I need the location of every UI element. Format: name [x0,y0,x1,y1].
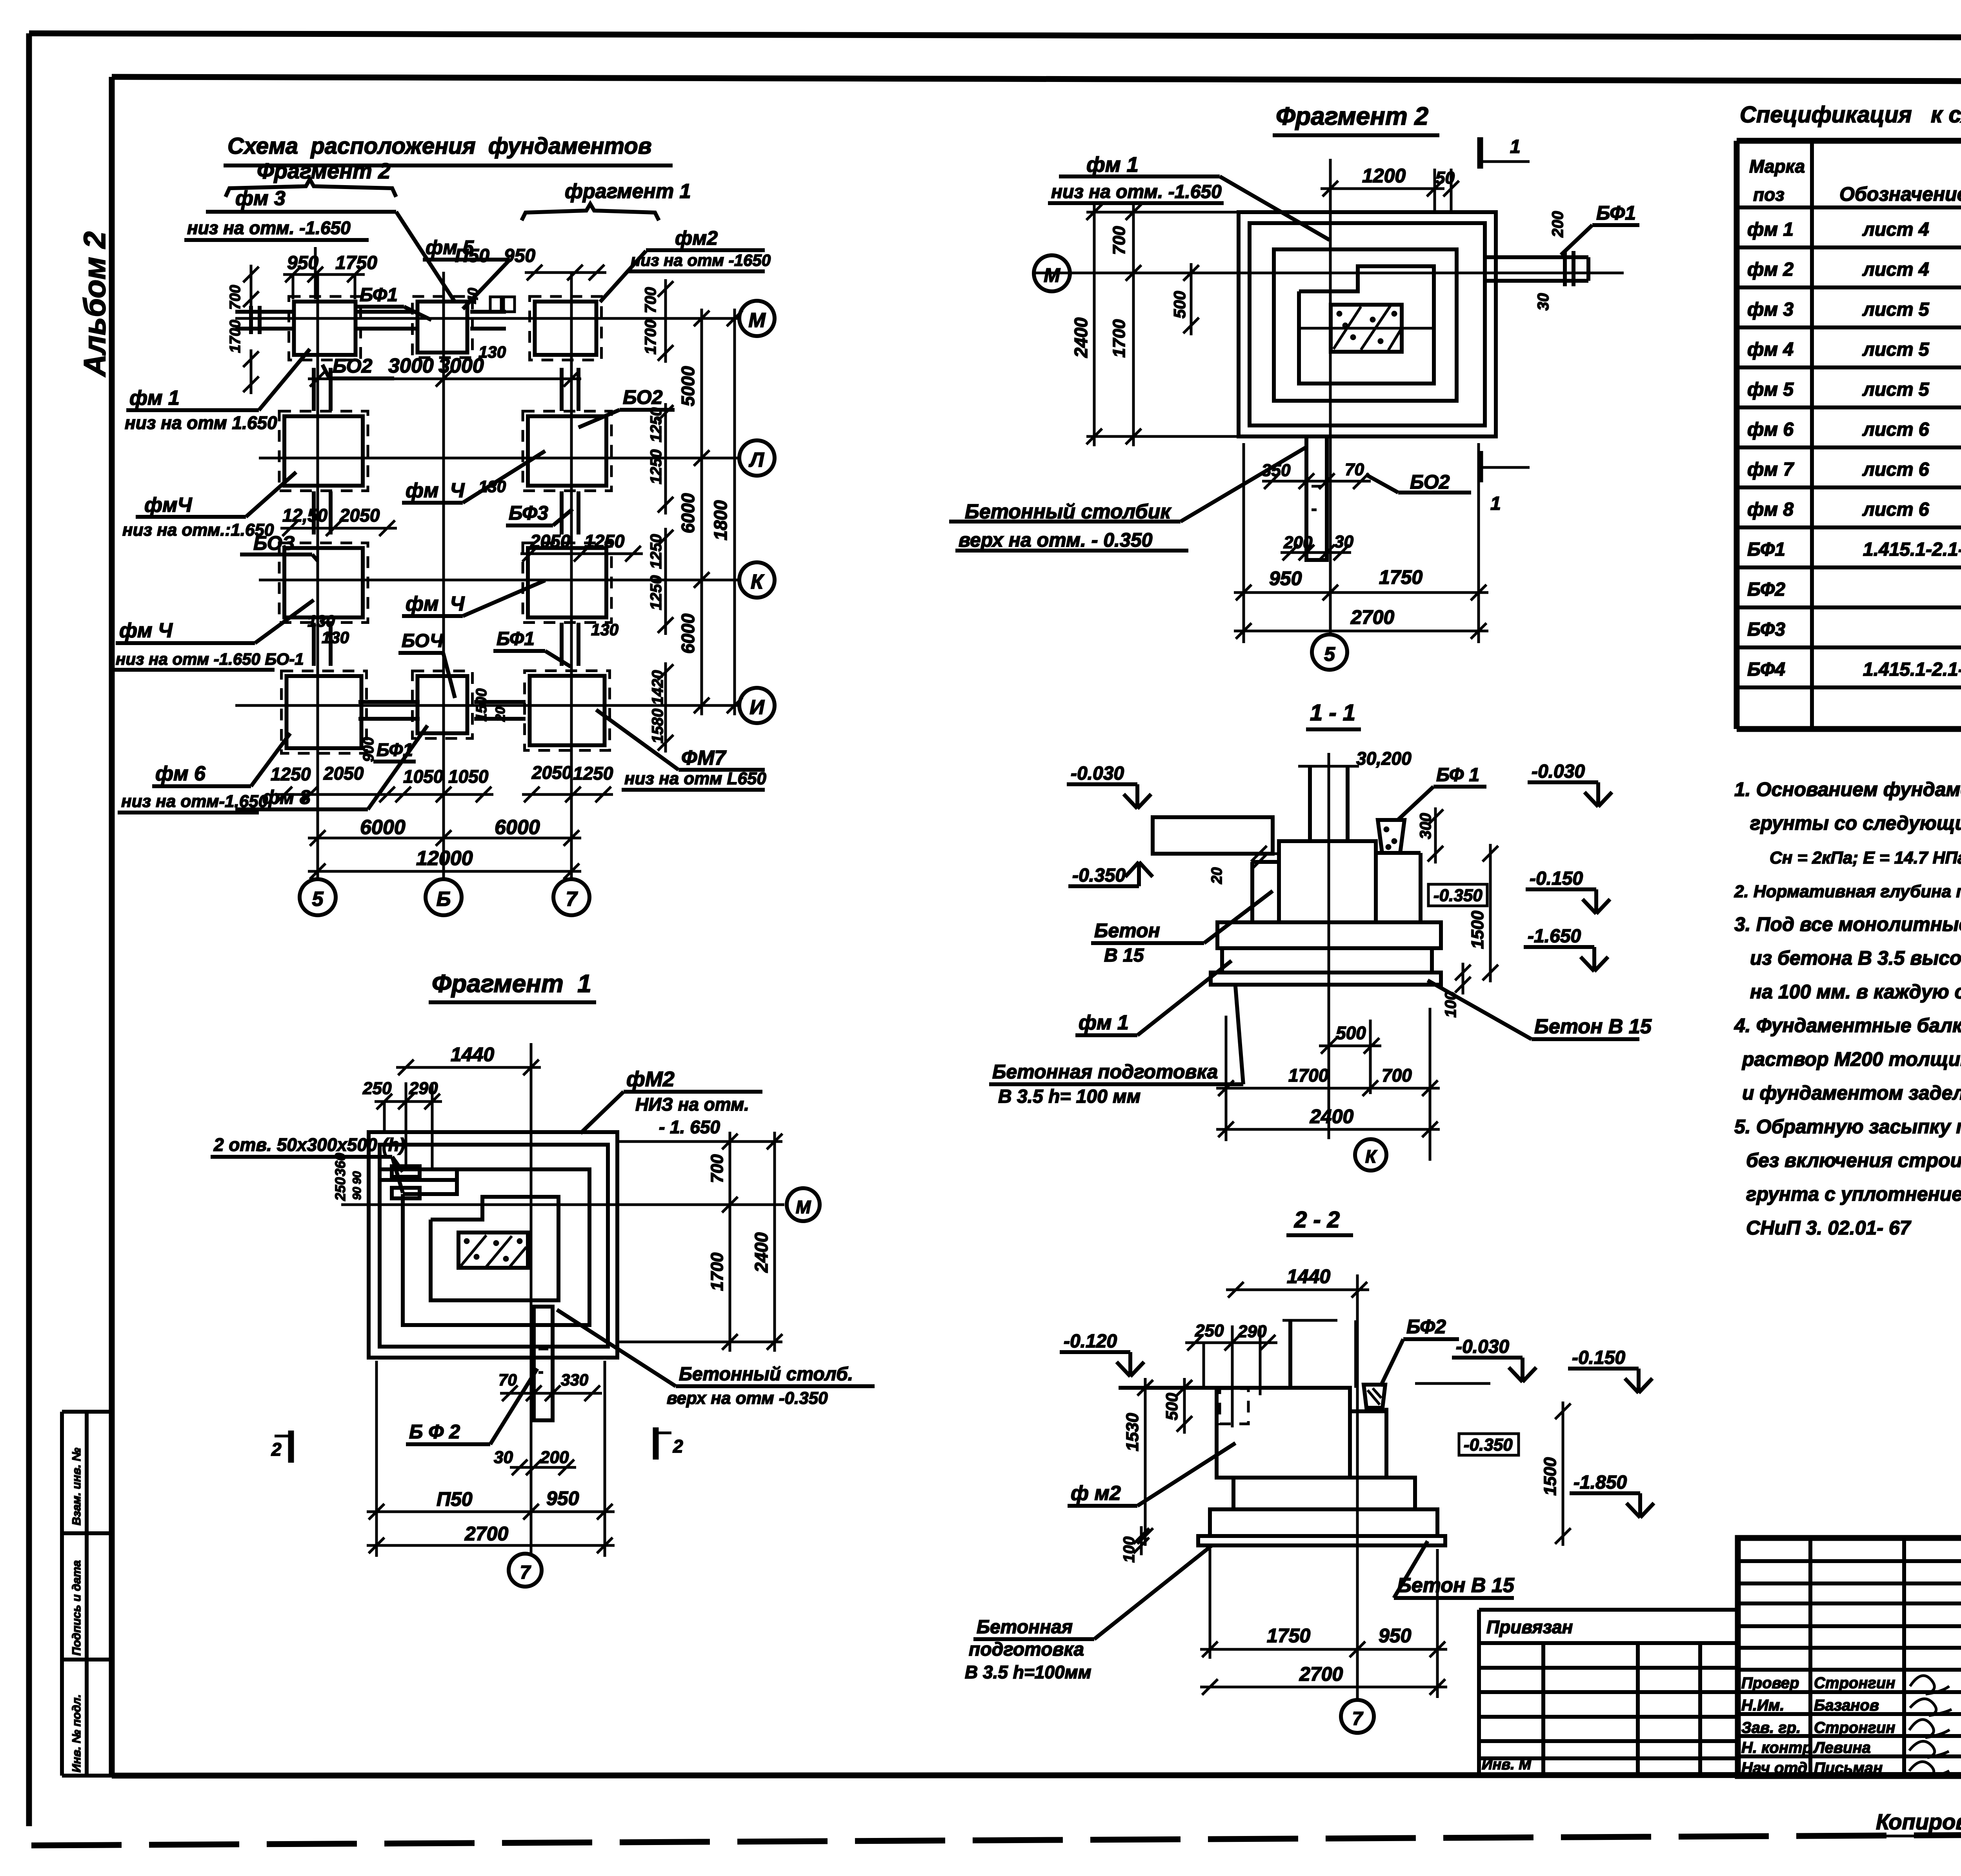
svg-text:БФ 1: БФ 1 [1436,765,1479,785]
svg-text:фм 5: фм 5 [426,236,474,258]
foundation фм4 (axis 5/Л) [279,411,368,491]
svg-text:360: 360 [332,1153,348,1176]
svg-text:290: 290 [1237,1322,1267,1341]
svg-text:верх на отм -0.350: верх на отм -0.350 [667,1389,828,1408]
svg-text:К: К [1365,1146,1377,1167]
outer border top line [29,33,1961,38]
axis circle 5 [300,879,336,915]
svg-text:грунты со следующими нормативн: грунты со следующими нормативными характ… [1750,812,1961,834]
svg-text:2400: 2400 [1310,1105,1353,1127]
svg-text:Спецификация к схеме распол: Спецификация к схеме расположения фундам… [1740,102,1961,127]
sec2 axis vertical [1356,1274,1359,1700]
inner frame left line [109,77,115,1776]
frag2 axis М horizontal [1035,272,1624,274]
svg-text:1700: 1700 [708,1252,727,1291]
svg-text:фм 7: фм 7 [1747,459,1794,480]
grid axis horizontal И [235,704,740,707]
sec1 axis vertical [1328,753,1330,1139]
svg-text:БФ4: БФ4 [1747,659,1785,680]
svg-text:90: 90 [351,1187,364,1200]
svg-text:Фрагмент 2: Фрагмент 2 [257,158,390,183]
frag2 foundation square 2 [1250,223,1485,425]
svg-text:1500: 1500 [473,688,490,722]
svg-text:БОЧ: БОЧ [402,631,444,651]
frag1 axis 7 vertical [530,1043,533,1554]
dim 12000 line [308,870,581,873]
svg-text:2700: 2700 [1350,606,1394,628]
frag2 dim 200 30 [1281,551,1351,554]
svg-text:950: 950 [546,1487,579,1509]
svg-text:СНиП 3. 02.01- 67: СНиП 3. 02.01- 67 [1746,1217,1912,1239]
svg-text:1. Основанием фундаментов прин: 1. Основанием фундаментов приняты сухие … [1734,778,1961,800]
beam БФ2 along axis 7 [560,368,564,411]
svg-text:Н.Им.: Н.Им. [1741,1697,1784,1714]
svg-text:раствор М200 толщиной 20мм. З: раствор М200 толщиной 20мм. Зазоры между… [1741,1048,1961,1070]
sec1 rotated dim 1500 [1489,844,1492,982]
svg-text:Фрагмент 1: Фрагмент 1 [432,969,591,998]
svg-text:2: 2 [673,1436,683,1456]
svg-text:И: И [749,696,765,719]
dim 1050 1050 row И Б [393,793,493,796]
dim 2050 1250 row И col7 [522,793,613,796]
sec1 base slab [1222,948,1432,973]
frag1 square 3 stepped [403,1169,589,1325]
svg-text:250: 250 [1195,1321,1224,1340]
svg-text:2 отв. 50х300х500 (h): 2 отв. 50х300х500 (h) [213,1134,405,1155]
svg-text:70: 70 [1345,460,1364,479]
svg-text:6000: 6000 [678,493,698,533]
grid axis horizontal Л [259,457,740,460]
svg-text:2700: 2700 [1299,1663,1343,1685]
svg-text:250: 250 [362,1079,392,1098]
svg-text:В 15: В 15 [1104,945,1144,966]
frag2 axis circle М [1034,255,1070,291]
frag1 dim 70 330 [500,1392,602,1395]
frag2 column hatched [1331,305,1402,352]
svg-text:Бетонный столб.: Бетонный столб. [679,1364,853,1385]
svg-text:Зав. гр.: Зав. гр. [1741,1719,1801,1736]
svg-text:4. Фундаментные балки уклад: 4. Фундаментные балки укладывать на цеме… [1734,1014,1961,1036]
svg-text:фм 3: фм 3 [235,187,286,210]
frag1 section mark 2 right [653,1427,659,1460]
svg-text:1700: 1700 [1110,319,1129,358]
beam БФ2 along axis 5 [312,368,316,411]
svg-text:лист 4: лист 4 [1862,259,1929,280]
svg-text:-0.120: -0.120 [1064,1331,1117,1352]
svg-text:грунта с уплотнением в соо: грунта с уплотнением в соответствии с тр… [1746,1183,1961,1205]
svg-text:фм 1: фм 1 [1747,219,1794,240]
frag2 dim 2700 [1234,630,1488,633]
sec1 axis circle К [1355,1139,1386,1171]
frag1 dim 2700 [367,1544,615,1547]
beam БФ1 row М [355,310,417,314]
axis circle Б [426,879,462,915]
svg-text:1500: 1500 [1468,911,1487,949]
frag2 top dim 1200 50 [1321,187,1444,190]
svg-text:2: 2 [271,1439,282,1460]
svg-text:1700: 1700 [227,320,244,353]
svg-text:ф м2: ф м2 [1071,1482,1121,1505]
inner frame bottom line [112,1775,1961,1776]
svg-text:поз: поз [1753,184,1785,205]
svg-text:500: 500 [1162,1393,1181,1420]
svg-text:М: М [1044,264,1061,286]
svg-text:2050: 2050 [339,505,380,525]
svg-text:5000: 5000 [678,366,698,406]
sec1 right shoulder [1419,853,1423,922]
svg-text:Левина: Левина [1813,1739,1871,1756]
svg-text:БО2: БО2 [623,386,663,408]
sec2 base [1210,1509,1437,1536]
frag1 dim 1750 950 [367,1511,615,1513]
connector symbol row М near Б [490,297,501,312]
frag2 dim 500 [1190,263,1193,335]
svg-text:-0.150: -0.150 [1530,868,1583,889]
svg-text:12000: 12000 [416,847,473,870]
svg-text:лист 6: лист 6 [1862,459,1929,480]
svg-text:7: 7 [566,888,578,911]
svg-text:20: 20 [1209,867,1225,884]
svg-text:6000: 6000 [360,816,406,839]
svg-text:30: 30 [1535,293,1552,311]
svg-text:3000: 3000 [438,354,484,377]
svg-text:Инв. № подл.: Инв. № подл. [70,1694,83,1772]
svg-text:Сн = 2кПа; Е = 14.7 НПа;: Сн = 2кПа; Е = 14.7 НПа; Yн = 0.49 раз; … [1770,848,1961,867]
svg-text:1440: 1440 [1287,1265,1330,1287]
svg-text:200: 200 [540,1448,569,1467]
sec2 ground line [1119,1386,1217,1390]
sec2 dim 2700 [1200,1686,1447,1689]
sec1 prep layer [1211,973,1441,985]
sec2 rotated dim 500 [1183,1378,1186,1434]
sec1 boxed -0.350 [1428,884,1487,906]
svg-text:БФ1: БФ1 [497,629,535,649]
sec2 right shoulder [1350,1409,1386,1413]
svg-text:1250: 1250 [573,763,613,783]
frag1 dim 1440 [396,1066,541,1069]
svg-text:-0.150: -0.150 [1572,1347,1625,1368]
svg-text:низ на отм.:1.650: низ на отм.:1.650 [122,520,274,540]
frag2 section mark 1 top [1477,137,1483,169]
frag2 axis circle 5 [1312,634,1347,670]
svg-text:фм Ч: фм Ч [119,619,173,642]
svg-text:1420: 1420 [649,670,666,705]
svg-text:К: К [751,571,764,593]
svg-text:низ на отм 1.650: низ на отм 1.650 [125,413,277,433]
svg-text:-0.030: -0.030 [1071,763,1124,784]
svg-text:на 100 мм. в каждую сторону,: на 100 мм. в каждую сторону, кроме огово… [1750,981,1961,1003]
svg-text:1250: 1250 [648,575,665,610]
frag2 concrete post столбик [1306,436,1327,560]
svg-text:БФ1: БФ1 [360,285,398,305]
svg-text:1250: 1250 [271,764,311,784]
sec2 upper block [1217,1388,1350,1478]
svg-text:1: 1 [1490,493,1501,514]
svg-text:1.415.1-2.1-1: 1.415.1-2.1-1 [1863,539,1961,560]
foundation фм4 (axis 5/К) [279,543,368,623]
svg-text:фм 6: фм 6 [1747,419,1794,440]
svg-text:БФ3: БФ3 [509,502,548,524]
svg-text:Б Ф 2: Б Ф 2 [409,1421,460,1443]
svg-text:Бетонная: Бетонная [977,1617,1073,1638]
svg-text:-0.030: -0.030 [1456,1336,1509,1357]
svg-text:фм 3: фм 3 [1747,299,1794,320]
sec1 column shaft [1308,766,1312,841]
svg-text:130: 130 [307,612,335,630]
frag1 concrete post [534,1307,553,1420]
svg-text:Бетон: Бетон [1094,920,1160,942]
axis circle К [739,562,775,598]
frag1 axis circle М [787,1188,820,1221]
sec2 elevation -0.030 [1415,1382,1490,1385]
dim ladder per-row (right) [664,279,667,363]
svg-text:700: 700 [1110,226,1129,255]
dim 6000 6000 line [308,837,581,840]
svg-text:3. Под все монолитные фундам: 3. Под все монолитные фундаменты выполни… [1734,913,1961,935]
grid axis vertical Б [442,272,445,879]
svg-text:20: 20 [493,707,508,722]
outer border left line [26,33,32,1826]
grid axis horizontal М [235,317,740,320]
svg-text:2. Нормативная глубина промерз: 2. Нормативная глубина промерзания грунт… [1734,882,1961,901]
svg-text:Провер: Провер [1741,1674,1799,1692]
svg-text:Взам. инв. №: Взам. инв. № [70,1448,83,1525]
svg-text:Привязан: Привязан [1486,1617,1573,1637]
svg-text:700: 700 [708,1154,727,1183]
axis circle И [739,688,775,723]
frag1 outer square [369,1132,617,1358]
svg-text:Копировал Подлевская: Копировал Подлевская [1876,1809,1961,1834]
svg-text:- 1. 650: - 1. 650 [659,1117,720,1137]
sec1 stakan body [1279,841,1376,922]
svg-text:Обозначение: Обозначение [1839,183,1961,205]
svg-text:200: 200 [1283,533,1313,552]
frag1 axis circle 7 [509,1554,542,1587]
svg-text:фМ2: фМ2 [626,1067,675,1091]
sec2 boxed -0.350 [1459,1434,1519,1455]
svg-text:из бетона В 3.5 высотой 100: из бетона В 3.5 высотой 100мм, превышают… [1750,947,1961,969]
dim 1250 2050 row И col5 [275,793,397,796]
svg-text:6000: 6000 [678,613,698,654]
frag2 foundation square 4 stepped [1299,266,1434,384]
foundation фм2 (axis 7/М) [530,296,602,360]
svg-text:фрагмент 1: фрагмент 1 [565,180,691,203]
svg-text:950: 950 [1269,567,1302,589]
svg-text:фм 5: фм 5 [1747,379,1794,400]
svg-text:500: 500 [1170,291,1189,318]
svg-text:2 - 2: 2 - 2 [1294,1207,1340,1232]
svg-text:Бетон В 15: Бетон В 15 [1534,1015,1652,1038]
svg-text:1750: 1750 [335,253,377,273]
svg-text:1700: 1700 [1288,1065,1329,1085]
frag1 right dims 700 1700 2400 [729,1132,731,1352]
svg-text:2050: 2050 [323,763,364,783]
svg-text:1700: 1700 [642,320,659,354]
frag1 square 2 [380,1145,608,1347]
grid axis vertical 7 [570,272,573,879]
svg-text:130: 130 [478,343,506,361]
svg-text:-0.350: -0.350 [1433,886,1483,905]
svg-text:БФ2: БФ2 [1747,579,1785,600]
svg-text:30: 30 [1334,532,1353,551]
signatures squiggles [1910,1676,1949,1694]
svg-text:лист 6: лист 6 [1862,499,1929,520]
sec1 dim 500 [1319,1045,1381,1047]
svg-text:Нач отд: Нач отд [1741,1760,1807,1777]
svg-text:БО2: БО2 [333,355,373,377]
frag1 axis М horizontal [341,1203,784,1206]
sec1 left shoulder [1250,862,1254,922]
svg-text:7: 7 [1352,1709,1364,1729]
svg-text:подготовка: подготовка [969,1639,1084,1660]
grid axis horizontal К [259,579,740,582]
svg-text:Инв. М: Инв. М [1482,1756,1532,1773]
svg-text:1800: 1800 [710,500,731,540]
svg-text:12,50: 12,50 [282,505,328,525]
svg-text:7: 7 [520,1562,531,1583]
svg-text:низ на отм. -1.650: низ на отм. -1.650 [187,218,351,238]
svg-text:6000: 6000 [495,816,540,839]
svg-text:Б: Б [437,888,451,911]
svg-text:фм 2: фм 2 [1747,259,1794,280]
svg-text:950: 950 [1379,1625,1412,1647]
foundation фм3 (axis 5/М) [289,296,361,360]
svg-text:2400: 2400 [1071,317,1091,358]
frag1 dim 250 290 [375,1100,442,1103]
svg-text:1050: 1050 [403,766,444,787]
frag1 top step lines [380,1167,457,1171]
title block outer frame [1738,1538,1961,1776]
svg-text:1750: 1750 [1267,1625,1310,1647]
dim 3000 3000 row М-Л [308,378,581,380]
svg-text:верх на отм. - 0.350: верх на отм. - 0.350 [959,529,1153,551]
svg-text:фмЧ: фмЧ [144,494,192,516]
svg-text:без включения строительного: без включения строительного мусора и рас… [1746,1149,1961,1171]
svg-text:300: 300 [1417,813,1434,839]
svg-text:700: 700 [642,287,659,313]
sec2 dim 1440 [1226,1289,1369,1291]
sec1 step [1217,922,1441,948]
axis circle М [739,301,775,336]
svg-text:фм2: фм2 [675,227,718,249]
svg-text:-0.350: -0.350 [1464,1435,1513,1454]
svg-text:М: М [748,309,766,332]
sec2 dim 250 290 [1185,1342,1277,1344]
svg-text:1.415.1-2.1-3: 1.415.1-2.1-3 [1863,659,1961,680]
svg-text:5: 5 [1324,643,1335,665]
svg-text:-0.030: -0.030 [1532,761,1585,782]
svg-text:1050: 1050 [448,766,489,787]
frag2 axis 5 vertical [1329,159,1332,634]
svg-text:5: 5 [312,888,324,911]
svg-text:1440: 1440 [451,1043,494,1065]
svg-text:1580: 1580 [649,709,666,743]
svg-text:30,200: 30,200 [1356,748,1412,769]
sec1 dim 2400 [1216,1128,1440,1131]
svg-text:БФ1: БФ1 [1596,202,1636,224]
svg-text:1250: 1250 [648,407,665,442]
frag1 column hatched [458,1232,528,1268]
svg-text:-0.350: -0.350 [1072,865,1126,886]
frag1 square 4 [431,1197,558,1300]
sec2 step [1233,1478,1415,1509]
dim 2050 1250 row К col7 [520,553,643,555]
sec2 axis circle 7 [1341,1700,1374,1733]
svg-text:2700: 2700 [464,1523,508,1545]
svg-text:1 - 1: 1 - 1 [1310,700,1355,725]
inner frame top line [112,77,1961,82]
svg-text:1250: 1250 [648,449,665,484]
frag1 dim 30 200 [510,1466,576,1469]
beam stub left of фм3 [235,310,292,314]
foundation фм6 (axis 5/И) [282,671,367,753]
svg-text:3000: 3000 [388,354,434,377]
outer border bottom dashed line [31,1832,1961,1845]
frag2 column axis cross [1298,327,1435,330]
foundation фм7 (axis 7/И) [525,671,610,751]
svg-text:Бетонная подготовка: Бетонная подготовка [992,1061,1218,1083]
svg-text:130: 130 [591,620,618,639]
svg-text:БОЗ: БОЗ [253,532,295,554]
svg-text:1250: 1250 [584,531,625,551]
svg-text:В 3.5 h= 100 мм: В 3.5 h= 100 мм [998,1086,1141,1107]
svg-text:НИЗ на отм.: НИЗ на отм. [635,1094,749,1114]
svg-text:фм 1: фм 1 [129,387,180,409]
beam БФ1 row И [358,700,420,704]
left margin stamp strip [60,1412,64,1776]
svg-text:и фундаментом заделать бе: и фундаментом заделать бетоном В 15. [1742,1082,1961,1104]
svg-text:фм Ч: фм Ч [406,479,465,502]
svg-text:40: 40 [465,288,481,304]
svg-text:Альбом 2: Альбом 2 [77,231,112,377]
svg-text:200: 200 [1549,211,1566,238]
svg-text:лист 4: лист 4 [1862,219,1929,240]
svg-text:Стронгин: Стронгин [1814,1674,1895,1692]
svg-text:2050: 2050 [531,762,572,783]
dim 5000 ladder [700,309,703,715]
svg-text:П50: П50 [437,1488,473,1510]
svg-text:низ на отм. -1.650: низ на отм. -1.650 [1051,182,1222,202]
svg-text:фм Ч: фм Ч [406,593,465,615]
svg-text:900: 900 [360,737,377,762]
svg-text:БО2: БО2 [1410,471,1450,493]
sec2 prep layer [1198,1536,1445,1545]
svg-text:-1.650: -1.650 [1528,926,1581,947]
svg-text:лист 6: лист 6 [1862,419,1929,440]
svg-text:2050: 2050 [530,531,571,551]
svg-text:250: 250 [332,1177,348,1201]
sec2 dim 1750 950 [1200,1648,1447,1651]
svg-text:ФМ7: ФМ7 [681,747,727,769]
frag2 left dims 2400 700 1700 [1093,202,1096,446]
sec1 beam БФ1 right trapezoid [1378,820,1404,853]
svg-text:70: 70 [498,1371,517,1389]
sec2 column shaft [1288,1320,1292,1388]
svg-text:500: 500 [1336,1023,1366,1043]
svg-text:Подпись и дата: Подпись и дата [70,1560,83,1656]
dim 1750 950 above фм2 [525,271,606,274]
svg-text:2400: 2400 [751,1232,771,1273]
svg-text:БФ3: БФ3 [1747,619,1785,640]
svg-text:низ на отм -1650: низ на отм -1650 [631,251,771,269]
sec2 rotated dim 1530 [1144,1378,1147,1546]
svg-text:Базанов: Базанов [1814,1697,1879,1714]
svg-text:М: М [796,1197,811,1217]
svg-text:350: 350 [1262,461,1291,480]
frag1 slots 2 отв [392,1166,420,1177]
svg-text:лист 5: лист 5 [1862,379,1930,400]
svg-text:700: 700 [227,285,244,310]
